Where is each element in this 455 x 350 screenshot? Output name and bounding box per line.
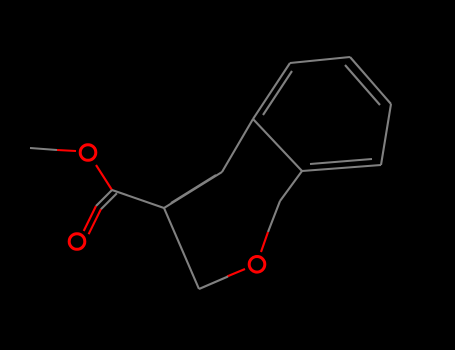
wire: C=O double bond line b gray half	[101, 193, 117, 209]
node ring O label	[249, 257, 265, 273]
wire: benzo edge P3-P4	[350, 57, 391, 104]
wire: V to Q bond	[280, 171, 302, 201]
wire: methyl C-O bond gray half	[30, 148, 57, 150]
wire: ester O to carbonyl C bond (red)	[96, 165, 112, 190]
wire: C3=C4 double bond main line	[164, 172, 222, 208]
wire: C=O double bond line b red half	[89, 209, 101, 234]
wire: benzo inner double line T-P2	[263, 71, 292, 115]
wire: Q to ring O bond gray half	[268, 201, 280, 232]
wire: C=O double bond line a gray half	[96, 190, 112, 206]
wire: benzo edge P2-P3	[290, 57, 350, 63]
wire: C=O double bond line a red half	[84, 206, 96, 231]
wire: benzo edge V-T	[253, 119, 302, 171]
wire: ring O to CH2b bond gray half	[199, 277, 228, 290]
node carbonyl O label	[69, 234, 85, 250]
wire: C4 to aromatic T bond	[222, 119, 253, 172]
wire: ring O to CH2b bond red half	[227, 269, 245, 277]
wire: benzo edge T-P2	[253, 63, 290, 119]
wire: C3=C4 double bond inner line	[171, 175, 216, 203]
wire: benzo edge P5-V	[302, 165, 381, 171]
wire: benzo edge P4-P5	[381, 104, 391, 165]
wire: CH2b to C3 bond	[164, 208, 199, 289]
wire: Q to ring O bond red half	[261, 232, 268, 252]
wire: benzo inner double line P5-V	[310, 159, 372, 164]
wire: carbonyl C to ring C3 bond	[112, 190, 164, 208]
node ester O label	[80, 145, 96, 161]
wire: methyl C-O bond red half	[57, 150, 76, 151]
wire: benzo inner double line P3-P4	[345, 65, 380, 105]
